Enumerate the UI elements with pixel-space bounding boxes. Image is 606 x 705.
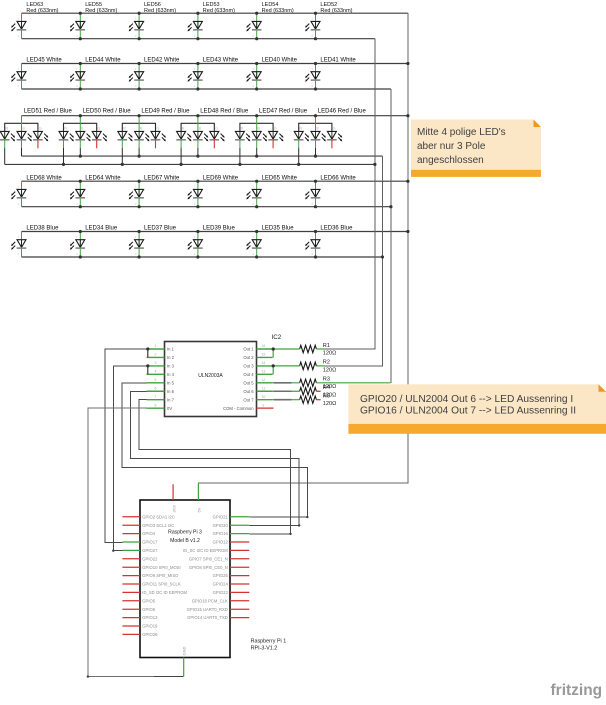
- U2 pin stub GPIO15 UART0_RXD: [230, 608, 249, 610]
- U2 pin stub GPIO22: [122, 558, 140, 560]
- IC U2 Raspberry Pi 3 body: [140, 500, 230, 658]
- LED LED38: [11, 226, 59, 257]
- svg-text:G: G: [274, 127, 277, 131]
- svg-text:GPIO16 / ULN2004 Out 7 --> LED: GPIO16 / ULN2004 Out 7 --> LED Aussenrin…: [360, 405, 576, 416]
- svg-text:aber nur 3 Pole: aber nur 3 Pole: [417, 141, 486, 152]
- svg-text:14: 14: [261, 361, 265, 365]
- svg-text:Out 6: Out 6: [243, 389, 254, 394]
- resistor R3 120ohm: [300, 377, 337, 391]
- IC U1 ULN2003A body: [165, 342, 257, 417]
- U1 pin number labels: [155, 344, 266, 407]
- U2 pin stub GPIO6: [122, 608, 140, 610]
- svg-text:LED51 Red / Blue: LED51 Red / Blue: [24, 109, 73, 115]
- svg-text:B: B: [257, 127, 260, 131]
- svg-text:GPIO9 SPI0_MISO: GPIO9 SPI0_MISO: [142, 573, 179, 578]
- svg-text:2: 2: [311, 252, 313, 256]
- svg-text:8: 8: [155, 403, 157, 407]
- svg-text:2: 2: [311, 34, 313, 38]
- node row2 LED4 top junction: [196, 62, 199, 65]
- svg-text:2: 2: [76, 202, 78, 206]
- svg-text:LED50 Red / Blue: LED50 Red / Blue: [83, 109, 132, 115]
- wire row5 anode bus: [22, 231, 408, 233]
- svg-text:GND: GND: [182, 647, 187, 656]
- node row2 LED6 bottom junction: [314, 87, 317, 90]
- svg-text:GPIO23: GPIO23: [213, 590, 229, 595]
- resistor R5 120ohm: [300, 394, 337, 408]
- svg-text:3: 3: [155, 361, 157, 365]
- svg-text:LED67 White: LED67 White: [144, 175, 180, 181]
- node row4 LED3 bottom junction: [138, 205, 141, 208]
- node bus main x row4: [406, 180, 409, 183]
- svg-text:GPIO3 SCL1 I2C: GPIO3 SCL1 I2C: [142, 523, 174, 528]
- wire row3 blue cathode bus: [22, 155, 383, 157]
- svg-text:R: R: [241, 127, 244, 131]
- node row3 unit3 anode junction: [138, 114, 141, 117]
- U2 pin stub GPIO8 SPI0_CE0_N: [230, 566, 249, 568]
- node In7 wire bend: [289, 533, 291, 535]
- svg-text:In 4: In 4: [167, 372, 175, 377]
- svg-text:3V3: 3V3: [171, 505, 176, 513]
- LED LED69: [188, 175, 239, 206]
- svg-text:GPIO4: GPIO4: [142, 531, 155, 536]
- node row3 unit6 blue junction: [314, 155, 317, 158]
- svg-text:1: 1: [135, 67, 137, 71]
- LED LED52: [305, 2, 353, 39]
- svg-text:2: 2: [17, 34, 19, 38]
- node row5 LED2 top junction: [79, 230, 82, 233]
- svg-text:R: R: [299, 127, 302, 131]
- wire Out3-Out4 tie: [272, 366, 274, 374]
- svg-text:B: B: [199, 127, 202, 131]
- U1 pin 16 stub: [257, 348, 273, 350]
- svg-text:2: 2: [135, 84, 137, 88]
- node row2 LED3 bottom junction: [138, 87, 141, 90]
- U2 pin stub ID_SD I2C ID EEPROM: [122, 591, 140, 593]
- svg-text:5: 5: [155, 378, 157, 382]
- wire Out1 to R1: [273, 348, 299, 350]
- U2 pin stub GPIO4: [122, 533, 140, 535]
- U1 pin 6 stub: [147, 390, 165, 392]
- svg-text:2: 2: [194, 202, 196, 206]
- svg-text:Out 7: Out 7: [243, 397, 254, 402]
- svg-text:LED44 White: LED44 White: [85, 58, 121, 64]
- svg-text:Out 4: Out 4: [243, 372, 254, 377]
- U2 pin stub GPIO11 SPI0_SCLK: [122, 583, 140, 585]
- svg-text:LED41 White: LED41 White: [320, 58, 356, 64]
- svg-text:LED40 White: LED40 White: [262, 58, 298, 64]
- node row3 unit2 red junction: [62, 163, 65, 166]
- wire Out7 overlap segment: [274, 399, 292, 401]
- svg-text:2: 2: [135, 202, 137, 206]
- svg-text:In 1: In 1: [167, 347, 175, 352]
- wire Out5 to resistor: [273, 382, 300, 384]
- wire row2 anode bus: [22, 63, 408, 65]
- U1 pin 4 stub: [147, 373, 165, 375]
- wire row5 cathode bus: [22, 256, 383, 258]
- node row1 LED2 top junction: [79, 12, 82, 15]
- node row4 LED2 top junction: [79, 180, 82, 183]
- wire row1 anode bus: [22, 12, 408, 14]
- node row1 LED6 top junction: [314, 12, 317, 15]
- node bus main x row5: [406, 230, 409, 233]
- svg-text:GPIO11 SPI0_SCLK: GPIO11 SPI0_SCLK: [142, 582, 181, 587]
- svg-text:ID_SD I2C ID EEPROM: ID_SD I2C ID EEPROM: [142, 590, 187, 595]
- node row2 LED2 top junction: [79, 62, 82, 65]
- svg-text:R: R: [123, 127, 126, 131]
- svg-text:fritzing: fritzing: [551, 682, 603, 699]
- node row5 LED6 top junction: [314, 230, 317, 233]
- wire 0V to RPi GND: [88, 408, 154, 676]
- svg-text:2: 2: [135, 252, 137, 256]
- U2 pin stub GPIO10 SPI0_MOSI: [122, 566, 140, 568]
- svg-text:LED37 Blue: LED37 Blue: [144, 226, 177, 232]
- svg-text:In 7: In 7: [167, 397, 175, 402]
- note annotation Mitte 4 polige: [411, 120, 541, 177]
- svg-text:1: 1: [311, 17, 313, 21]
- svg-text:Red (633nm): Red (633nm): [144, 8, 176, 14]
- U1 pin 7 stub: [147, 399, 165, 401]
- node row2 LED4 bottom junction: [196, 87, 199, 90]
- svg-text:Model B v1.2: Model B v1.2: [170, 538, 200, 544]
- LED LED34: [70, 226, 118, 257]
- wire row4 anode bus: [22, 180, 408, 182]
- node row2 LED3 top junction: [138, 62, 141, 65]
- node row3 unit2 anode junction: [79, 114, 82, 117]
- LED LED64: [70, 175, 121, 206]
- svg-text:4: 4: [155, 370, 157, 374]
- LED LED37: [129, 226, 177, 257]
- svg-text:12: 12: [261, 378, 265, 382]
- U1 pin 14 stub: [257, 365, 273, 367]
- node row3 unit5 anode junction: [255, 114, 258, 117]
- U1 pin 3 stub: [147, 365, 165, 367]
- svg-text:LED47 Red / Blue: LED47 Red / Blue: [259, 109, 308, 115]
- U2 3V3 pin stub: [172, 484, 174, 500]
- svg-text:Out 3: Out 3: [243, 364, 254, 369]
- U2 pin stub GPIO5: [122, 600, 140, 602]
- svg-text:GPIO27: GPIO27: [142, 548, 158, 553]
- svg-text:1: 1: [17, 67, 19, 71]
- U2 pin stub GPIO18 PCM_CLK: [230, 600, 249, 602]
- U2 pin stub GPIO16: [230, 533, 249, 535]
- svg-text:7: 7: [155, 395, 157, 399]
- svg-text:16: 16: [261, 344, 265, 348]
- wire Out7 to resistor: [273, 399, 300, 401]
- node row3 unit5 blue junction: [255, 155, 258, 158]
- svg-text:LED48 Red / Blue: LED48 Red / Blue: [200, 109, 249, 115]
- svg-text:1: 1: [76, 235, 78, 239]
- svg-text:1: 1: [252, 185, 254, 189]
- svg-text:Red (633nm): Red (633nm): [262, 8, 294, 14]
- svg-text:2: 2: [17, 252, 19, 256]
- svg-text:2: 2: [311, 84, 313, 88]
- svg-text:IC2: IC2: [272, 334, 282, 341]
- node bus white x row4: [389, 205, 392, 208]
- node row2 LED5 bottom junction: [255, 87, 258, 90]
- LED LED51 (RGB unit): [0, 109, 72, 165]
- svg-text:Red (633nm): Red (633nm): [320, 8, 352, 14]
- wire Out6 overlap segment: [274, 390, 292, 392]
- svg-text:Raspberry Pi 3: Raspberry Pi 3: [168, 530, 202, 536]
- svg-text:2: 2: [252, 202, 254, 206]
- U2 pin stub GPIO21: [230, 516, 249, 518]
- node row3 unit6 red junction: [297, 163, 300, 166]
- wire Out3 to R2: [273, 365, 299, 367]
- svg-text:1: 1: [17, 235, 19, 239]
- svg-text:B: B: [81, 127, 84, 131]
- svg-text:RPI-3-V1.2: RPI-3-V1.2: [251, 645, 278, 651]
- LED LED41: [305, 58, 356, 89]
- svg-text:2: 2: [76, 34, 78, 38]
- LED LED54: [246, 2, 294, 39]
- LED LED66: [305, 175, 356, 206]
- wire R3 right to white bus: [316, 382, 390, 384]
- LED LED44: [70, 58, 121, 89]
- svg-text:2: 2: [76, 84, 78, 88]
- node Out1 junction: [272, 347, 275, 350]
- svg-text:1: 1: [135, 17, 137, 21]
- node row5 LED5 bottom junction: [255, 255, 258, 258]
- U1 pin 8 stub: [147, 407, 165, 409]
- resistor R4 120ohm: [300, 385, 337, 399]
- svg-text:GPIO16: GPIO16: [213, 531, 229, 536]
- LED LED35: [246, 226, 294, 257]
- node row1 LED2 bottom junction: [79, 37, 82, 40]
- svg-text:B: B: [22, 127, 25, 131]
- svg-text:120Ω: 120Ω: [323, 367, 337, 373]
- LED LED39: [188, 226, 236, 257]
- U2 pin stub ID_SC I2C ID EEPROM: [230, 549, 249, 551]
- U1 pin 2 stub: [147, 356, 165, 358]
- node row2 LED6 top junction: [314, 62, 317, 65]
- LED LED55: [70, 2, 118, 39]
- wire In5 to GPIO21: [122, 383, 307, 517]
- wire blue net vertical bus: [325, 156, 383, 366]
- svg-text:1: 1: [194, 235, 196, 239]
- U2 5V pin stub: [197, 483, 199, 500]
- svg-text:ULN2003A: ULN2003A: [198, 373, 223, 379]
- svg-text:GPIO10 SPI0_MOSI: GPIO10 SPI0_MOSI: [142, 565, 180, 570]
- svg-text:LED45 White: LED45 White: [26, 58, 62, 64]
- node bus blue x row5: [381, 255, 384, 258]
- wire row3 red cathode bus: [5, 163, 375, 165]
- wire Out6 to resistor: [273, 390, 300, 392]
- LED LED56: [129, 2, 177, 39]
- svg-text:Red (633nm): Red (633nm): [203, 8, 235, 14]
- svg-text:1: 1: [17, 17, 19, 21]
- wire Out1-Out2 tie: [272, 349, 274, 357]
- svg-text:R: R: [182, 127, 185, 131]
- node row3 unit3 red junction: [121, 163, 124, 166]
- svg-text:1: 1: [17, 185, 19, 189]
- svg-text:R: R: [5, 127, 8, 131]
- svg-text:LED69 White: LED69 White: [203, 175, 239, 181]
- node row5 LED3 top junction: [138, 230, 141, 233]
- node row1 LED6 bottom junction: [314, 37, 317, 40]
- LED LED50 (RGB unit): [59, 109, 132, 165]
- node row5 LED6 bottom junction: [314, 255, 317, 258]
- svg-text:2: 2: [76, 252, 78, 256]
- svg-text:0V: 0V: [167, 406, 172, 411]
- node row4 LED3 top junction: [138, 180, 141, 183]
- svg-text:In 2: In 2: [167, 355, 175, 360]
- svg-text:2: 2: [194, 34, 196, 38]
- svg-text:LED39 Blue: LED39 Blue: [203, 226, 236, 232]
- node row4 LED6 top junction: [314, 180, 317, 183]
- svg-text:1: 1: [76, 67, 78, 71]
- svg-text:GPIO17: GPIO17: [142, 540, 158, 545]
- svg-text:GPIO20: GPIO20: [213, 523, 229, 528]
- svg-text:LED66 White: LED66 White: [320, 175, 356, 181]
- svg-text:GPIO13: GPIO13: [142, 615, 158, 620]
- node row3 unit3 blue junction: [138, 155, 141, 158]
- svg-text:2: 2: [194, 252, 196, 256]
- svg-text:2: 2: [252, 34, 254, 38]
- wire R4 red stub: [316, 390, 320, 392]
- U1 pin 12 stub: [257, 382, 273, 384]
- U1 pin 1 stub: [147, 348, 165, 350]
- node In5 wire bend: [306, 516, 308, 518]
- node row4 LED6 bottom junction: [314, 205, 317, 208]
- wire In7 to GPIO16: [139, 400, 291, 534]
- svg-text:LED68 White: LED68 White: [26, 175, 62, 181]
- node row1 LED5 bottom junction: [255, 37, 258, 40]
- svg-text:Red (633nm): Red (633nm): [85, 8, 117, 14]
- node Out3 junction: [272, 364, 275, 367]
- LED LED63: [11, 2, 59, 39]
- svg-text:GPIO12: GPIO12: [213, 540, 229, 545]
- node row4 LED4 top junction: [196, 180, 199, 183]
- svg-text:LED36 Blue: LED36 Blue: [320, 226, 353, 232]
- wire R2 green lead right: [316, 365, 324, 367]
- svg-text:1: 1: [252, 235, 254, 239]
- svg-text:1: 1: [76, 185, 78, 189]
- LED LED42: [129, 58, 180, 89]
- node 0V wire bend: [87, 675, 89, 677]
- svg-text:GPIO2 SDA1 I2C: GPIO2 SDA1 I2C: [142, 514, 175, 519]
- LED LED65: [246, 175, 297, 206]
- U2 GND pin stub: [183, 658, 185, 677]
- U2 pin stub GPIO23: [230, 591, 249, 593]
- node row3 unit2 blue junction: [79, 155, 82, 158]
- node In3 wire bend: [112, 550, 114, 552]
- svg-text:Mitte 4 polige LED's: Mitte 4 polige LED's: [417, 127, 506, 138]
- svg-text:2: 2: [17, 84, 19, 88]
- svg-text:2: 2: [252, 84, 254, 88]
- U2 pin stub GPIO9 SPI0_MISO: [122, 575, 140, 577]
- svg-text:6: 6: [155, 386, 157, 390]
- wire In3-In4 tie: [147, 366, 149, 374]
- node In1 junction: [146, 347, 149, 350]
- svg-text:LED42 White: LED42 White: [144, 58, 180, 64]
- wire common anode main bus: [198, 13, 408, 483]
- svg-text:GPIO22: GPIO22: [142, 556, 158, 561]
- node bus main x row2: [406, 62, 409, 65]
- svg-text:GPIO7 SPI0_CE1_N: GPIO7 SPI0_CE1_N: [189, 556, 228, 561]
- node row5 LED4 top junction: [196, 230, 199, 233]
- wire Out5 overlap segment: [274, 382, 292, 384]
- svg-text:1: 1: [311, 67, 313, 71]
- node row5 LED5 top junction: [255, 230, 258, 233]
- svg-text:GPIO5: GPIO5: [142, 598, 155, 603]
- svg-text:1: 1: [155, 344, 157, 348]
- svg-text:GPIO8 SPI0_CE0_N: GPIO8 SPI0_CE0_N: [189, 565, 228, 570]
- svg-text:R3: R3: [323, 377, 330, 383]
- svg-text:LED46 Red / Blue: LED46 Red / Blue: [318, 109, 367, 115]
- svg-text:B: B: [140, 127, 143, 131]
- svg-text:LED34 Blue: LED34 Blue: [85, 226, 118, 232]
- LED LED53: [188, 2, 236, 39]
- svg-text:1: 1: [194, 67, 196, 71]
- U1 pin 5 stub: [147, 382, 165, 384]
- U2 pin stub GPIO17: [122, 541, 140, 543]
- svg-text:GPIO18 PCM_CLK: GPIO18 PCM_CLK: [192, 598, 228, 603]
- LED LED68: [11, 175, 62, 206]
- svg-text:10: 10: [261, 395, 265, 399]
- LED LED67: [129, 175, 180, 206]
- node row1 LED3 top junction: [138, 12, 141, 15]
- svg-text:Out 5: Out 5: [243, 380, 254, 385]
- svg-text:R: R: [64, 127, 67, 131]
- svg-text:G: G: [333, 127, 336, 131]
- svg-text:11: 11: [262, 386, 266, 390]
- svg-text:R2: R2: [323, 360, 330, 366]
- node row1 LED4 bottom junction: [196, 37, 199, 40]
- svg-text:In 3: In 3: [167, 364, 175, 369]
- svg-text:G: G: [39, 127, 42, 131]
- node row2 LED2 bottom junction: [79, 87, 82, 90]
- U2 right pin labels: [183, 514, 228, 620]
- svg-text:1: 1: [311, 235, 313, 239]
- LED LED43: [188, 58, 239, 89]
- node In6 wire bend: [298, 524, 300, 526]
- resistor R2 120ohm: [300, 360, 337, 374]
- U2 left pin labels: [142, 514, 187, 637]
- wire In6 to GPIO20: [130, 391, 299, 525]
- wire 0V-GND dark segment: [154, 676, 184, 678]
- node row4 LED4 bottom junction: [196, 205, 199, 208]
- node row3 unit6 anode junction: [314, 114, 317, 117]
- node In3 junction: [146, 364, 149, 367]
- wire row1 cathode bus: [22, 38, 375, 40]
- svg-text:1: 1: [135, 235, 137, 239]
- node row3 unit5 red junction: [238, 163, 241, 166]
- svg-text:G: G: [215, 127, 218, 131]
- svg-text:1: 1: [311, 185, 313, 189]
- LED LED36: [305, 226, 353, 257]
- svg-text:angeschlossen: angeschlossen: [417, 155, 484, 166]
- node row1 LED5 top junction: [255, 12, 258, 15]
- node row1 LED4 top junction: [196, 12, 199, 15]
- U2 pin stub GPIO3 SCL1 I2C: [122, 524, 140, 526]
- svg-text:R4: R4: [323, 385, 330, 391]
- U2 pin stub GPIO20: [230, 524, 249, 526]
- svg-text:LED65 White: LED65 White: [262, 175, 298, 181]
- U2 pin stub GPIO2 SDA1 I2C: [122, 516, 140, 518]
- wire R1 green lead right: [316, 348, 324, 350]
- U1 pin 10 stub: [257, 399, 273, 401]
- wire R5 red stub: [316, 399, 320, 401]
- svg-text:LED35 Blue: LED35 Blue: [262, 226, 295, 232]
- svg-text:2: 2: [194, 84, 196, 88]
- svg-text:1: 1: [135, 185, 137, 189]
- svg-text:ID_SC I2C ID EEPROM: ID_SC I2C ID EEPROM: [183, 548, 228, 553]
- svg-text:LED49 Red / Blue: LED49 Red / Blue: [141, 109, 190, 115]
- svg-text:GPIO25: GPIO25: [213, 573, 229, 578]
- svg-text:GPIO19: GPIO19: [142, 624, 158, 629]
- svg-text:Out 2: Out 2: [243, 355, 254, 360]
- svg-text:GPIO24: GPIO24: [213, 582, 229, 587]
